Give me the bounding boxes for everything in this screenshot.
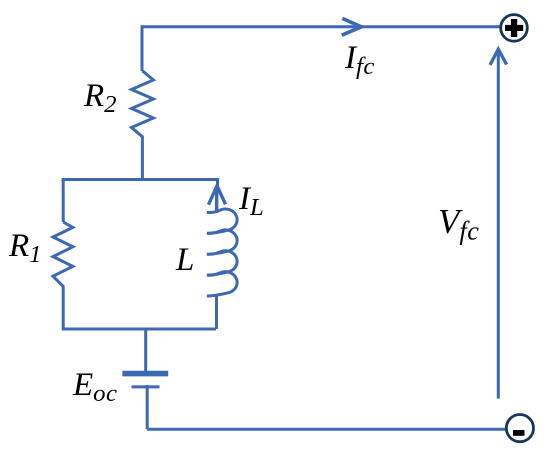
arrow I_L [209,186,226,205]
arrow V_fc shaft [497,52,500,399]
arrowhead I_fc [342,18,362,35]
wire loop top rail [63,180,217,187]
resistor R2 [132,71,154,180]
resistor R1 [53,222,73,329]
inductor L coil [207,209,237,296]
label R1 [9,228,42,269]
battery tap from bottom rail [144,329,147,371]
minus glyph [513,430,525,436]
plus glyph [505,19,523,37]
label R2 [84,78,117,119]
minus terminal circle [506,415,533,442]
battery plate short [132,385,160,388]
label L [176,242,194,279]
label I_L [239,181,264,222]
wire bottom to minus terminal [147,428,506,431]
label E_oc [73,367,118,408]
wire top: R2 top corner to plus terminal [142,27,501,71]
wire loop bottom rail [63,327,216,329]
wire loop left upper [62,180,65,223]
label I_fc [345,40,375,81]
battery plate long [122,371,168,377]
battery bottom stub [146,385,149,429]
arrowhead V_fc [490,49,507,65]
label V_fc [438,202,479,247]
wire coil bottom stub [215,296,218,329]
plus terminal circle [501,15,528,42]
